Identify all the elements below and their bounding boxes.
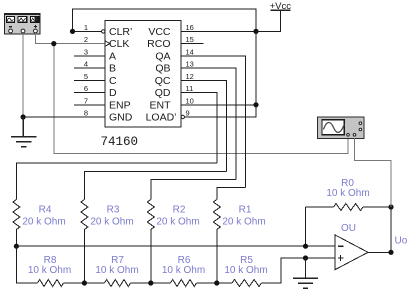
junction: ground node (21, 114, 26, 119)
wire: pin 10 ENT to ENT node (181, 104, 256, 106)
wire: R0 left branch down to inverting input (305, 207, 307, 246)
wire: pin 13 QB right and down (181, 68, 236, 179)
junction: ENT node (253, 102, 258, 107)
svg-text:OU: OU (341, 223, 356, 234)
oscilloscope bottom terminals (347, 134, 356, 137)
label R2 value (156, 205, 199, 228)
IC pin names left column (109, 26, 133, 124)
pin numbers left (84, 23, 88, 118)
wire: QA step left to R1 top (217, 188, 246, 200)
junction: rail node D (214, 280, 219, 285)
pin numbers right (186, 23, 194, 118)
svg-text:20 k Ohm: 20 k Ohm (22, 217, 65, 228)
label R5 value (224, 255, 267, 276)
svg-text:B: B (109, 63, 116, 75)
svg-text:GND: GND (109, 112, 133, 124)
svg-text:9: 9 (186, 109, 190, 118)
wire: feedback node down to output node (390, 207, 392, 252)
svg-text:13: 13 (186, 60, 194, 69)
pin 7 stub ENP (74, 104, 105, 106)
pin 2 clock wedge (105, 41, 110, 46)
IC U1 74160 body (105, 21, 181, 128)
svg-text:3: 3 (84, 48, 88, 57)
ground symbol (op-amp) (293, 258, 318, 288)
svg-text:74160: 74160 (101, 135, 139, 149)
svg-text:11: 11 (186, 84, 194, 93)
wire: VCC node to +Vcc symbol (256, 10, 281, 31)
svg-text:10 k Ohm: 10 k Ohm (28, 265, 71, 276)
svg-text:D: D (109, 87, 117, 99)
wire: generator common terminal down to ground node (22, 33, 24, 117)
svg-text:10: 10 (186, 96, 194, 105)
function generator minus mark (9, 26, 12, 28)
wire: R6 right to rail node D (197, 282, 233, 284)
wire: R2 bottom to rail node C (150, 230, 152, 284)
junction: CLR' node (70, 29, 75, 34)
svg-text:5: 5 (84, 72, 88, 81)
svg-text:6: 6 (84, 84, 88, 93)
svg-text:1: 1 (84, 23, 88, 32)
function generator XFG1 body (5, 14, 41, 35)
svg-text:10 k Ohm: 10 k Ohm (224, 265, 267, 276)
label R8 value (28, 255, 71, 276)
wire: pin 9 LOAD' bubble right and up to ENT node (185, 105, 257, 117)
function generator terminal + (34, 29, 38, 33)
svg-text:+Vcc: +Vcc (270, 1, 292, 12)
junction: non-inverting ground tap (303, 255, 308, 260)
svg-text:20 k Ohm: 20 k Ohm (156, 217, 199, 228)
label R7 value (95, 255, 138, 276)
oscilloscope XSC1 body (318, 117, 365, 138)
label R3 value (90, 205, 133, 228)
wire: CLK node to IC pin 2 (54, 43, 105, 45)
junction: VCC node (253, 29, 258, 34)
svg-text:CLK: CLK (109, 38, 129, 50)
wire: summing node down to R8 left (16, 246, 37, 283)
wire: generator + terminal to CLK node (35, 33, 53, 43)
wire: R7 right to rail node C (131, 282, 171, 284)
svg-text:16: 16 (186, 23, 194, 32)
svg-text:CLR’: CLR’ (109, 26, 132, 38)
pin 6 stub D (74, 92, 105, 94)
resistor R4 body (13, 200, 20, 230)
wire: pin 16 VCC to VCC node (181, 30, 256, 32)
resistor R8 body (38, 280, 64, 287)
function generator terminal common (21, 29, 25, 33)
wire: CLK node down and across to oscilloscope channel A (54, 44, 348, 154)
wire: ground node to IC pin 8 GND (23, 116, 105, 118)
svg-text:12: 12 (186, 72, 194, 81)
svg-text:8: 8 (84, 109, 88, 118)
op-amp plus mark (338, 255, 344, 261)
function generator plus mark (34, 25, 37, 28)
resistor R7 body (105, 280, 131, 287)
wire: pin 11 QD right and down (181, 93, 217, 163)
wire: QD step left to R4 top (16, 163, 217, 200)
junction: CLK node (51, 41, 56, 46)
resistor R6 body (171, 280, 197, 287)
svg-text:14: 14 (186, 48, 194, 57)
IC pin names right column (146, 26, 177, 124)
resistor R5 body (232, 280, 262, 287)
wire: CLR' node up and across the top to VCC node (73, 9, 257, 31)
svg-text:10 k Ohm: 10 k Ohm (162, 265, 205, 276)
label R0 value (326, 178, 369, 199)
svg-text:Uo: Uo (395, 236, 407, 247)
svg-text:7: 7 (84, 96, 88, 105)
junction: rail node B (82, 280, 87, 285)
svg-text:R2: R2 (173, 205, 186, 216)
svg-text:ENP: ENP (109, 99, 131, 111)
wire: R4 bottom to summing node (15, 230, 17, 247)
pin 3 stub A (74, 55, 105, 57)
junction: feedback node (388, 204, 393, 209)
svg-text:RCO: RCO (147, 38, 170, 50)
svg-text:20 k Ohm: 20 k Ohm (222, 217, 265, 228)
pin 5 stub C (74, 79, 105, 81)
pin 15 stub RCO (181, 43, 204, 45)
svg-text:R4: R4 (39, 205, 52, 216)
svg-text:15: 15 (186, 35, 194, 44)
wire: op-amp output to output node (368, 251, 391, 253)
op-amp minus mark (338, 245, 344, 247)
svg-text:QA: QA (155, 50, 170, 62)
svg-text:10 k Ohm: 10 k Ohm (326, 188, 369, 199)
resistor R1 body (213, 200, 220, 230)
+Vcc power symbol bar (270, 9, 290, 11)
function generator terminal - (9, 29, 13, 33)
wire: CLR' node to pin 1 bubble (73, 30, 102, 32)
function generator display window 2 (triangle) (18, 16, 27, 22)
pin 4 stub B (74, 67, 105, 69)
ground symbol (left) (11, 117, 37, 147)
svg-text:VCC: VCC (148, 26, 171, 38)
wire: QC step left to R3 top (84, 172, 226, 200)
label R4 value (22, 205, 65, 228)
svg-text:QC: QC (155, 75, 171, 87)
wire: pin 14 QA right and down (181, 56, 246, 188)
wire: oscilloscope channel B to output node (355, 138, 392, 207)
svg-text:R3: R3 (107, 205, 120, 216)
svg-text:R1: R1 (239, 205, 252, 216)
svg-text:ENT: ENT (150, 99, 172, 111)
svg-text:QB: QB (155, 63, 170, 75)
wire: summing node to op-amp inverting input (16, 245, 334, 247)
oscilloscope right terminals (359, 122, 362, 131)
function generator display window 1 (sine) (6, 16, 14, 22)
pin 1 inversion bubble (CLR') (102, 30, 105, 33)
svg-text:C: C (109, 75, 117, 87)
label R6 value (162, 255, 205, 276)
wire: R0 right lead to feedback node (363, 206, 391, 208)
junction: output node Uo (388, 250, 393, 255)
wire: R1 bottom to rail node D (216, 230, 218, 284)
function generator display window 3 (square) (31, 16, 39, 22)
pin 9 inversion bubble (LOAD') (181, 115, 184, 118)
label R1 value (222, 205, 265, 228)
wire: R3 bottom to rail node B (83, 230, 85, 284)
wire: pin 12 QC right and down (181, 80, 227, 171)
svg-text:2: 2 (84, 35, 88, 44)
wire: VCC node down to ENT node (255, 31, 257, 104)
wire: R0 left lead (306, 206, 334, 208)
svg-text:20 k Ohm: 20 k Ohm (90, 217, 133, 228)
junction: summing node A (14, 244, 19, 249)
op-amp OU triangle (335, 235, 368, 270)
resistor R2 body (147, 200, 154, 230)
junction: rail node C (148, 280, 153, 285)
wire: R5 right up to op-amp non-inverting input (262, 258, 335, 283)
resistor R0 body (334, 204, 364, 211)
svg-text:LOAD’: LOAD’ (146, 112, 177, 124)
wire: QB step left to R2 top (151, 180, 236, 200)
svg-text:10 k Ohm: 10 k Ohm (95, 265, 138, 276)
svg-text:QD: QD (155, 87, 171, 99)
resistor R3 body (81, 200, 88, 230)
svg-text:A: A (109, 50, 116, 62)
junction: inverting input node (303, 244, 308, 249)
oscilloscope screen (322, 120, 344, 135)
svg-text:4: 4 (84, 60, 88, 69)
wire: R8 right to rail node B (64, 282, 105, 284)
